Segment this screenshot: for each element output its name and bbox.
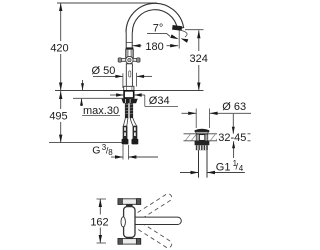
svg-text:8: 8 bbox=[108, 148, 113, 157]
svg-text:420: 420 bbox=[50, 43, 68, 55]
svg-text:7°: 7° bbox=[153, 23, 164, 35]
svg-text:G: G bbox=[92, 144, 100, 156]
svg-text:Ø 63: Ø 63 bbox=[222, 101, 246, 113]
svg-text:324: 324 bbox=[190, 53, 208, 65]
svg-text:495: 495 bbox=[49, 111, 67, 123]
svg-text:Ø 50: Ø 50 bbox=[92, 65, 116, 77]
svg-text:162: 162 bbox=[90, 216, 108, 228]
svg-text:G1: G1 bbox=[216, 162, 231, 174]
svg-text:4: 4 bbox=[239, 164, 244, 173]
svg-text:Ø34: Ø34 bbox=[149, 95, 170, 107]
svg-text:32-45: 32-45 bbox=[218, 132, 246, 144]
svg-text:180: 180 bbox=[145, 41, 163, 53]
